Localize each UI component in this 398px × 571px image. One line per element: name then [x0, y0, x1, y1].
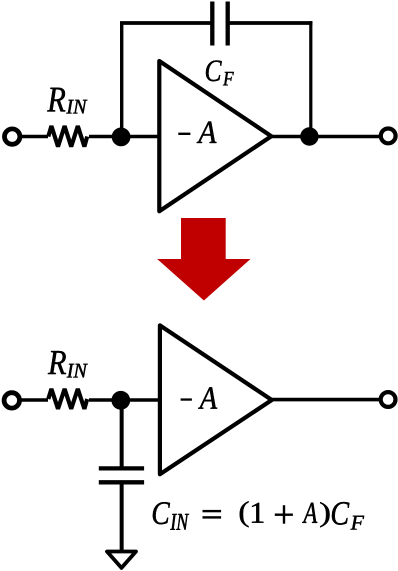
wire: top circuit input lead — [17, 135, 48, 139]
terminal: bottom input port — [4, 393, 19, 408]
terminal: bottom output port — [381, 392, 396, 407]
node A: top input junction — [112, 127, 131, 146]
wire: top feedback horizontal right segment — [229, 21, 312, 25]
wire: top feedback horizontal left segment — [120, 21, 211, 25]
ground — [107, 552, 136, 568]
node B: top output junction — [300, 127, 318, 145]
wire: bottom circuit from resistor to amplifier input — [89, 398, 161, 402]
wire: top feedback left vertical — [120, 23, 123, 137]
wire: bottom vertical to capacitor — [120, 400, 124, 467]
node C: bottom input junction — [111, 391, 130, 410]
wire: capacitor to ground — [120, 482, 124, 551]
resistor R2 = R_IN (bottom circuit) — [48, 389, 87, 409]
label R_IN (top) — [47, 88, 87, 114]
label C_F — [206, 60, 234, 85]
label -A (bottom op-amp gain) — [181, 387, 218, 408]
capacitor C2 = C_IN plates — [99, 468, 144, 482]
wire: top circuit from resistor to amplifier input — [89, 135, 161, 139]
label equation C_IN = (1 + A)C_F — [153, 501, 364, 530]
wire: bottom circuit output lead — [270, 398, 381, 402]
capacitor C1 = C_F plates — [212, 2, 227, 46]
wire: top circuit output lead — [270, 135, 381, 139]
red transform arrow — [157, 218, 250, 301]
wire: bottom circuit input lead — [17, 398, 48, 402]
wire: top feedback right vertical — [309, 21, 312, 136]
label R_IN (bottom) — [48, 351, 88, 377]
terminal: top output port — [381, 129, 396, 144]
op-amp U1 (inverting amplifier, top) — [159, 61, 271, 211]
op-amp U2 (inverting amplifier, bottom) — [160, 325, 272, 474]
label -A (top op-amp gain) — [178, 122, 216, 143]
resistor R1 = R_IN (top circuit) — [48, 126, 87, 147]
terminal: top input port — [5, 129, 20, 144]
